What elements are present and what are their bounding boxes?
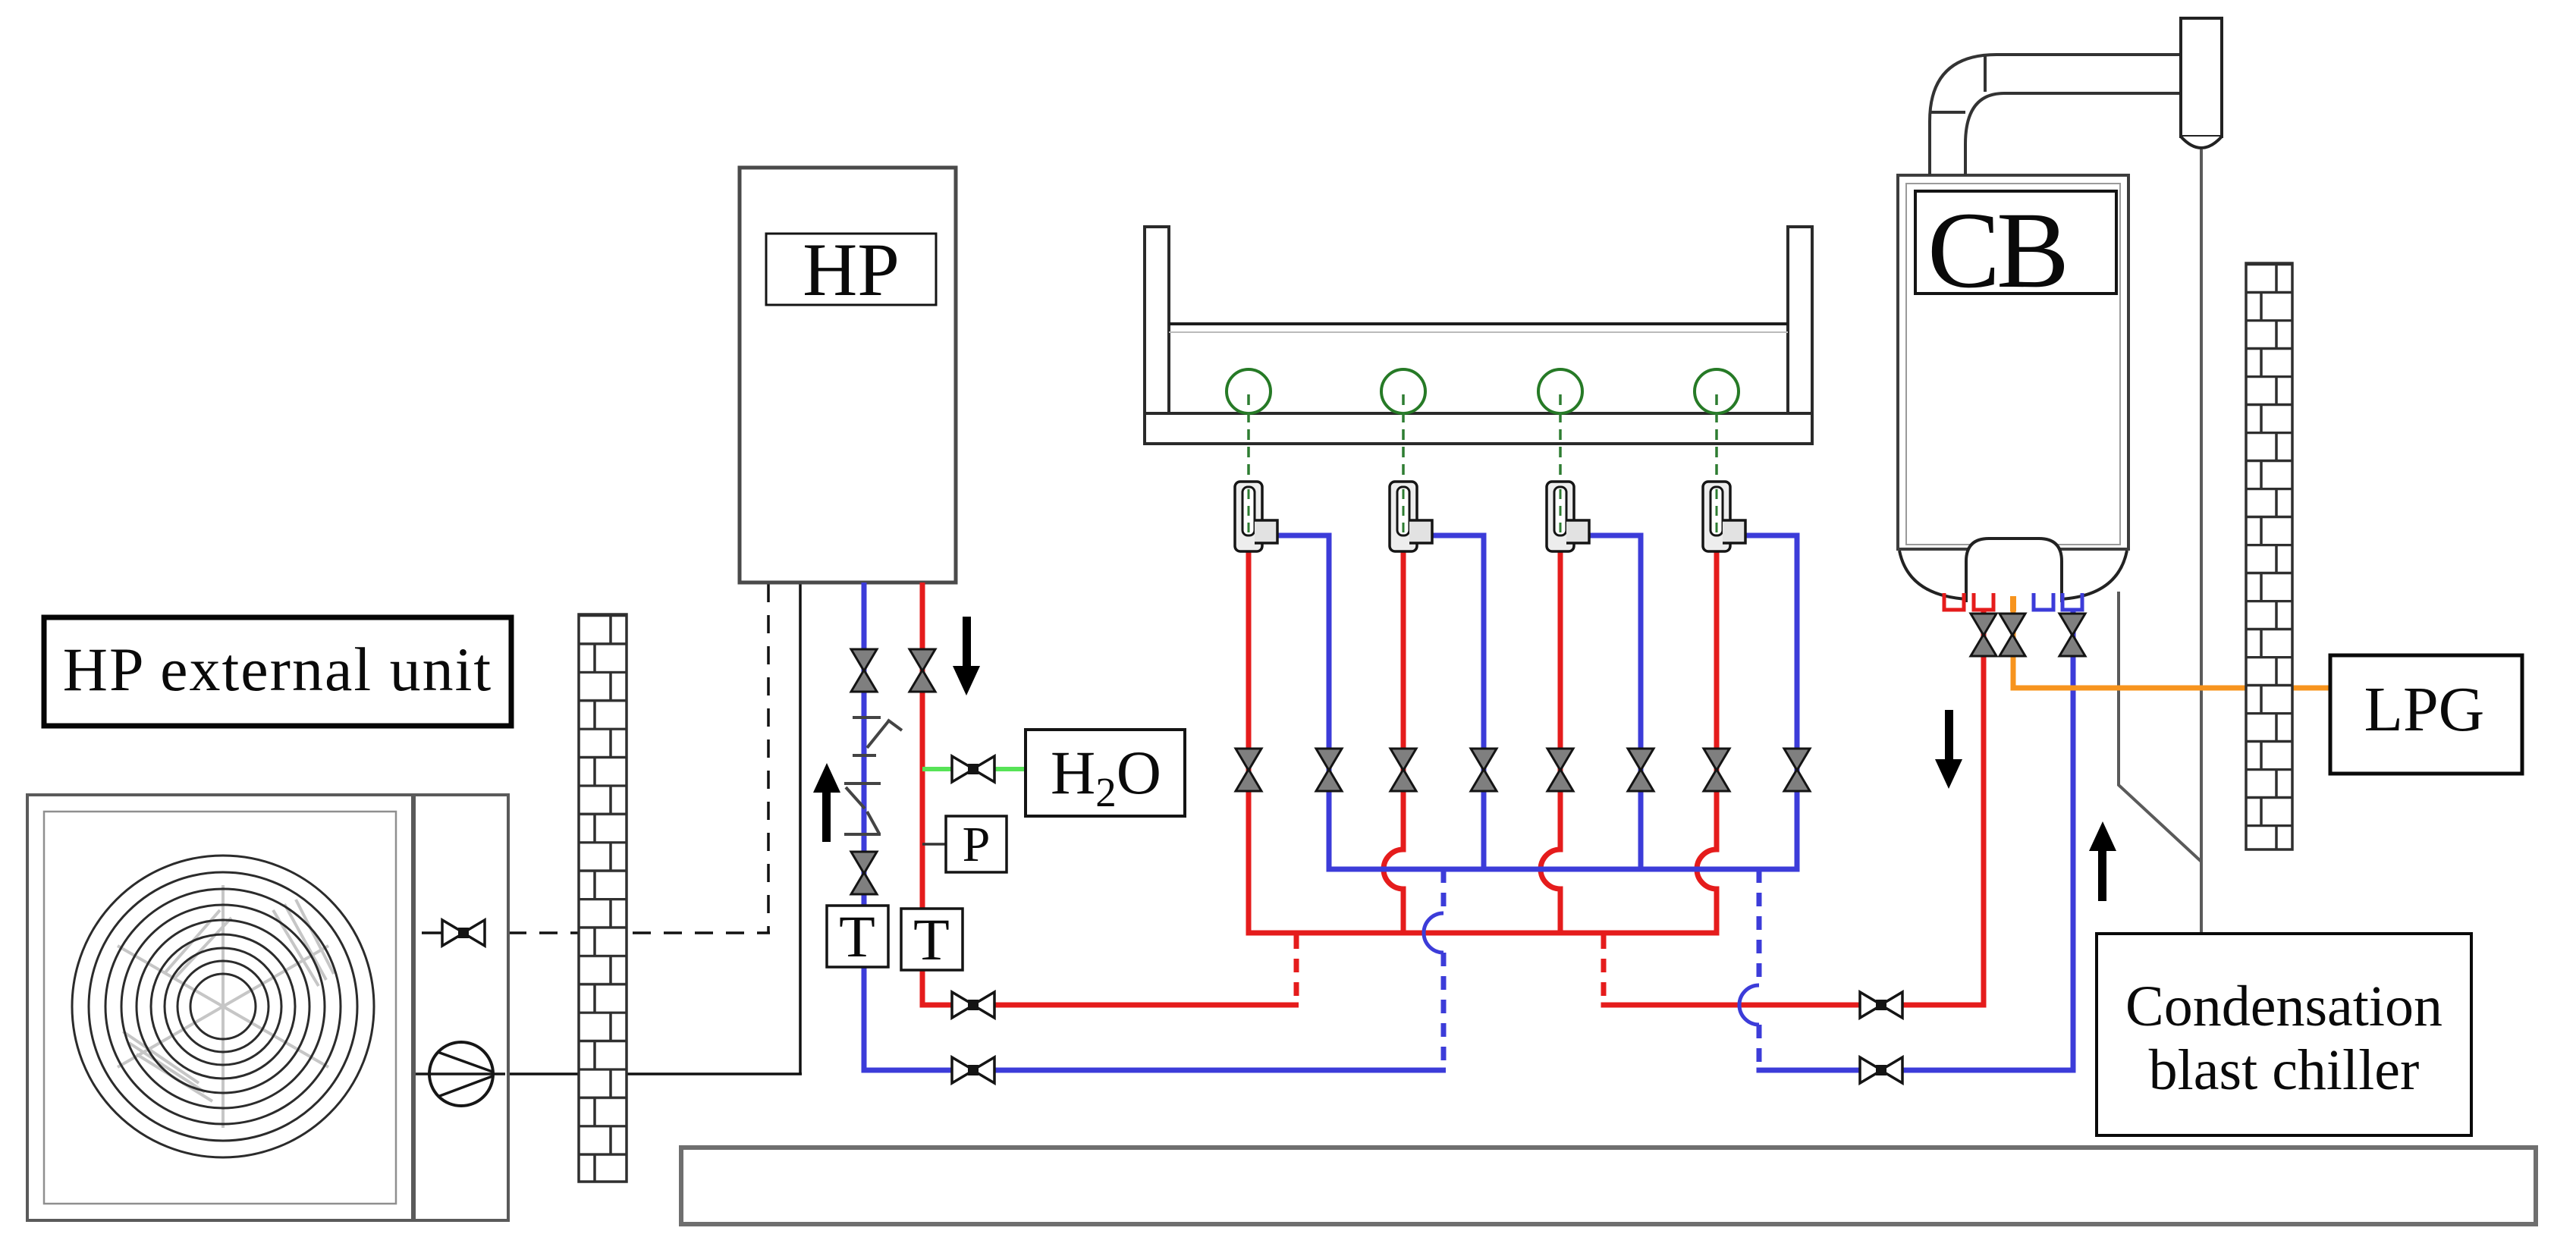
burner 2 green circle xyxy=(1381,369,1425,413)
floor platform xyxy=(681,1148,2536,1224)
valve on left blue main xyxy=(952,1057,994,1083)
T gauge box on blue xyxy=(827,906,888,967)
wire: red riser nozzle 2 with jump xyxy=(1384,551,1403,936)
svg-text:CB: CB xyxy=(1927,190,2066,311)
P gauge box xyxy=(946,816,1007,872)
water level line xyxy=(1169,322,1788,325)
svg-text:P: P xyxy=(963,817,991,872)
Condensation blast chiller box xyxy=(2097,934,2471,1135)
valve on riser 6 xyxy=(1628,749,1654,791)
valve on right red main xyxy=(1860,992,1902,1018)
heat pump HP box xyxy=(740,168,956,582)
CB bottom funnel xyxy=(1899,551,1968,599)
H2O box xyxy=(1026,730,1185,816)
svg-text:T: T xyxy=(839,903,875,969)
water pan bottom xyxy=(1145,413,1812,444)
svg-text:HP: HP xyxy=(803,228,900,312)
pipe: red collector bus xyxy=(1246,931,1720,936)
valve on riser 8 xyxy=(1784,749,1810,791)
svg-text:Condensation: Condensation xyxy=(2125,975,2442,1038)
CB bottom bump xyxy=(1966,539,2062,602)
valve on HP red pipe xyxy=(909,649,935,692)
arrow up near check valve xyxy=(813,763,840,842)
T gauge box on red xyxy=(901,909,963,970)
HP label box xyxy=(766,234,936,305)
valve on riser 4 xyxy=(1471,749,1497,791)
arrow up near chiller xyxy=(2089,821,2116,901)
wire: flue condensate drain from CB xyxy=(2119,592,2201,862)
burner 4 green circle xyxy=(1695,369,1739,413)
valve on riser 1 xyxy=(1236,749,1261,791)
pipe: blue dashed risers to mains xyxy=(1444,869,1759,1070)
svg-text:HP external unit: HP external unit xyxy=(63,635,492,704)
nozzle 1 xyxy=(1235,482,1277,551)
nozzle 4 xyxy=(1703,482,1745,551)
pipe: red supply from HP (vertical) xyxy=(920,582,1299,1005)
valve on HP blue pipe xyxy=(851,649,877,692)
water pan left wall xyxy=(1145,227,1169,444)
pipe: red horizontal main (right) to CB xyxy=(1601,611,1984,1008)
pump at external unit xyxy=(416,1042,505,1106)
wire: dashed control line from HP to external-unit valve xyxy=(508,584,770,933)
wire: chimney condensate line down to blast chiller xyxy=(2200,149,2203,934)
wire: solid line from HP to external-unit pump xyxy=(429,584,802,1074)
HP external unit fan casing xyxy=(27,795,413,1220)
wire: red riser nozzle 4 with jump xyxy=(1697,551,1717,936)
pipe: blue collector bus xyxy=(1327,867,1800,872)
nozzle 2 xyxy=(1390,482,1432,551)
CB connection clips xyxy=(1944,593,2082,610)
pipe: red dashed risers to mains xyxy=(1296,935,1604,1005)
CB label box xyxy=(1915,191,2116,294)
brick wall left xyxy=(579,614,627,1182)
wire: blue drop nozzle 2 xyxy=(1432,535,1484,872)
wire: red vertical from HP xyxy=(920,582,925,1005)
chimney flue elbow xyxy=(1930,55,2181,175)
brick wall right xyxy=(2246,263,2292,849)
pipe: blue elbows and risers from nozzles xyxy=(1277,535,1800,872)
pipe: green water make-up line to H2O xyxy=(922,767,1026,771)
safety/check valve on blue pipe xyxy=(844,717,902,834)
fan blades (light) xyxy=(118,885,334,1128)
water pan right wall xyxy=(1788,227,1812,444)
chimney terminal xyxy=(2181,18,2222,148)
wire: blue drop nozzle 1 xyxy=(1277,535,1329,872)
pipe: blue jump arcs xyxy=(1424,913,1759,1025)
svg-text:blast chiller: blast chiller xyxy=(2149,1038,2420,1102)
valve on green H2O line xyxy=(952,756,994,782)
wire: red riser nozzle 1 xyxy=(1246,551,1252,936)
fan grille concentric circles xyxy=(72,856,374,1157)
pipe: orange LPG gas line xyxy=(2011,611,2331,688)
valve on CB blue pipe xyxy=(2059,614,2085,656)
wire: blue drop nozzle 4 xyxy=(1745,535,1797,872)
valve on left red main xyxy=(952,992,994,1018)
HP external unit label box xyxy=(44,617,511,726)
arrow down near CB xyxy=(1935,710,1962,789)
valve on riser 7 xyxy=(1704,749,1729,791)
pipe: blue supply from HP (vertical) xyxy=(862,582,1447,1070)
valve on riser 2 xyxy=(1316,749,1342,791)
HP external unit side panel xyxy=(414,795,508,1220)
green dashed gas stems xyxy=(1249,394,1717,491)
valve on CB gas pipe xyxy=(2000,614,2025,656)
arrow down near HP xyxy=(953,617,980,696)
pipe: red risers from burner nozzles xyxy=(1246,551,1720,936)
valve on riser 3 xyxy=(1390,749,1416,791)
wire: blue drop nozzle 3 xyxy=(1589,535,1641,872)
wire: blue vertical from HP xyxy=(862,582,867,1070)
wire: red horizontal main left xyxy=(920,1003,1299,1008)
nozzle 3 xyxy=(1547,482,1589,551)
wire: red riser nozzle 3 with jump xyxy=(1541,551,1560,936)
expansion valve in side panel xyxy=(442,920,485,946)
wire: stub to expansion valve xyxy=(422,931,444,934)
valve on CB red pipe xyxy=(1971,614,1996,656)
condensing boiler CB body xyxy=(1898,175,2128,549)
small valve on blue pipe xyxy=(851,852,877,894)
burner 1 green circle xyxy=(1227,369,1271,413)
svg-text:T: T xyxy=(913,906,950,972)
LPG box xyxy=(2330,655,2522,774)
wire: connector from red pipe to P gauge xyxy=(922,843,946,846)
svg-text:LPG: LPG xyxy=(2364,674,2485,745)
burner 3 green circle xyxy=(1538,369,1582,413)
valve on riser 5 xyxy=(1547,749,1573,791)
pipe: blue horizontal main (right) to CB xyxy=(1757,611,2074,1073)
wire: blue horizontal main left xyxy=(862,1068,1447,1073)
valve on right blue main xyxy=(1860,1057,1902,1083)
